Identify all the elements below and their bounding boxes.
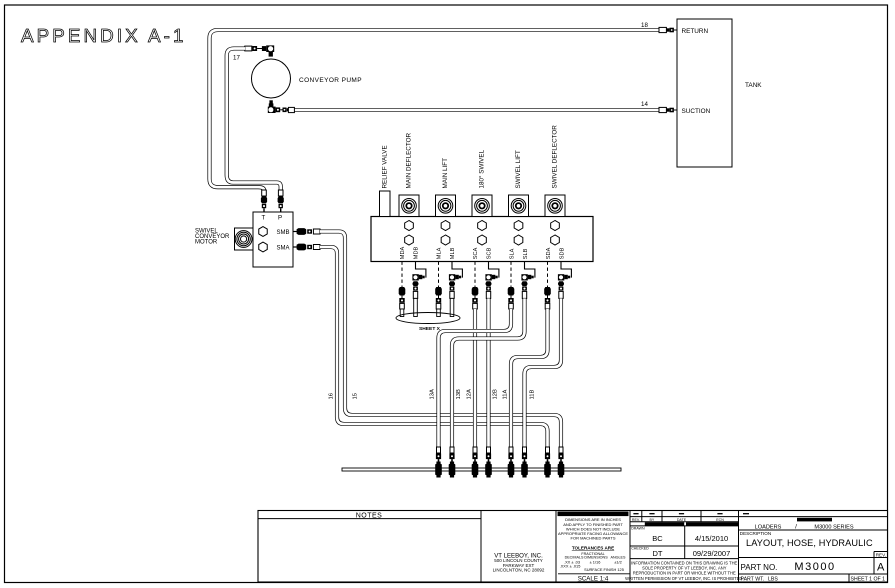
fitting at port SCB xyxy=(489,262,499,278)
hose 11A (SDA jog to bulkhead) xyxy=(511,309,548,448)
svg-text:SURFACE FINISH 125: SURFACE FINISH 125 xyxy=(584,567,624,572)
svg-text:SMB: SMB xyxy=(277,230,290,236)
svg-text:18: 18 xyxy=(641,22,648,29)
hose 16 (SMA to bulkhead) xyxy=(320,247,548,448)
bulkhead fitting for hose 13B xyxy=(450,447,454,453)
svg-text:SMA: SMA xyxy=(277,246,290,252)
svg-text:MLB: MLB xyxy=(450,247,456,259)
svg-text:180° SWIVEL: 180° SWIVEL xyxy=(477,149,485,188)
fitting at tank return xyxy=(659,27,666,32)
svg-text:M3000 SERIES: M3000 SERIES xyxy=(814,524,853,530)
svg-text:MAIN LIFT: MAIN LIFT xyxy=(442,158,449,189)
svg-text:11A: 11A xyxy=(503,389,509,399)
valve section V5 swivel deflector xyxy=(545,195,565,217)
valve section V2 main lift xyxy=(436,195,456,217)
hose 15 (SMB to bulkhead) xyxy=(320,232,561,448)
fitting at port MLB xyxy=(452,262,462,278)
hose 17 (pump to motor P) xyxy=(227,49,281,197)
svg-text:CHECKED: CHECKED xyxy=(631,547,649,551)
hose 14 (suction line, pump to tank) xyxy=(294,108,660,112)
svg-text:M3000: M3000 xyxy=(794,561,835,573)
svg-text:SWIVEL DEFLECTOR: SWIVEL DEFLECTOR xyxy=(551,125,558,189)
valve bank body xyxy=(371,217,593,262)
svg-text:LBS: LBS xyxy=(768,576,778,582)
svg-text:RETURN: RETURN xyxy=(682,28,709,35)
valve section V4 swivel lift xyxy=(509,195,529,217)
svg-text:MDB: MDB xyxy=(414,247,420,260)
fitting at port SLA xyxy=(510,262,512,288)
fitting at tank suction xyxy=(659,107,666,112)
svg-text:17: 17 xyxy=(233,55,240,62)
svg-text:RELIEF VALVE: RELIEF VALVE xyxy=(381,145,388,188)
hose 13B (SLB jog to bulkhead) xyxy=(452,298,525,447)
svg-text:SDA: SDA xyxy=(546,247,552,259)
svg-text:11B: 11B xyxy=(530,389,536,399)
svg-text:TANK: TANK xyxy=(745,82,762,89)
svg-text:PART NO.: PART NO. xyxy=(741,563,778,572)
svg-text:UNLESS OTHERWISE SPECIFIED: UNLESS OTHERWISE SPECIFIED xyxy=(561,511,625,516)
svg-text:MOTOR: MOTOR xyxy=(195,240,218,246)
relief valve xyxy=(380,191,391,217)
svg-text:SCB: SCB xyxy=(487,247,493,259)
bulkhead fitting for hose 11A xyxy=(509,447,513,453)
svg-text:MAIN DEFLECTOR: MAIN DEFLECTOR xyxy=(405,133,412,189)
svg-text:P: P xyxy=(278,215,282,222)
svg-text:13A: 13A xyxy=(430,389,436,399)
svg-text:CONVEYOR PUMP: CONVEYOR PUMP xyxy=(299,77,362,84)
svg-text:SWIVEL LIFT: SWIVEL LIFT xyxy=(515,150,522,188)
bulkhead plate xyxy=(342,468,621,471)
svg-text:FOR MACHINED PARTS: FOR MACHINED PARTS xyxy=(571,535,616,540)
svg-text:LOADERS: LOADERS xyxy=(755,524,782,530)
svg-text:SCA: SCA xyxy=(473,247,479,259)
fitting at motor port SMB xyxy=(293,231,297,233)
svg-text:SLB: SLB xyxy=(523,248,529,259)
svg-text:LAYOUT, HOSE, HYDRAULIC: LAYOUT, HOSE, HYDRAULIC xyxy=(746,538,873,548)
svg-text:15: 15 xyxy=(353,393,359,399)
svg-text:SHEET 1 OF 1: SHEET 1 OF 1 xyxy=(851,576,886,582)
hose 18 (return line, motor T to tank) xyxy=(210,30,660,196)
svg-text:REV.: REV. xyxy=(876,553,886,558)
svg-text:NOTES: NOTES xyxy=(356,512,383,519)
svg-text:09/29/2007: 09/29/2007 xyxy=(693,549,731,558)
svg-text:/: / xyxy=(795,524,797,531)
svg-text:4/15/2010: 4/15/2010 xyxy=(695,534,728,543)
svg-text:ECN DESCRIPTION: ECN DESCRIPTION xyxy=(798,518,831,522)
notes box xyxy=(258,511,888,583)
svg-text:± 1/16: ± 1/16 xyxy=(590,559,601,564)
fitting at motor port SMA xyxy=(293,246,297,248)
svg-text:BC: BC xyxy=(652,534,663,543)
hose 12B (SCB down to bulkhead) xyxy=(486,298,490,447)
svg-text:12B: 12B xyxy=(493,389,499,399)
svg-text:APPENDIX A-1: APPENDIX A-1 xyxy=(21,25,187,46)
svg-text:T: T xyxy=(262,215,266,222)
svg-text:SLA: SLA xyxy=(510,248,516,259)
pump suction elbow fitting (bottom) xyxy=(269,100,272,103)
svg-text:MLA: MLA xyxy=(437,247,443,259)
tolerance notes xyxy=(558,512,629,517)
svg-text:SDB: SDB xyxy=(560,247,566,259)
fitting at port SDA xyxy=(547,262,549,288)
hose 13A (SLA jog to bulkhead) xyxy=(439,309,512,448)
fitting at port SCA xyxy=(474,262,476,288)
fitting at port SDB xyxy=(561,262,571,278)
svg-text:REV.: REV. xyxy=(632,518,640,522)
svg-text:±1/2: ±1/2 xyxy=(614,559,622,564)
svg-text:SUCTION: SUCTION xyxy=(682,108,711,115)
conveyor pump P1 xyxy=(252,59,291,98)
bulkhead fitting for hose 12A xyxy=(473,447,477,453)
svg-text:PART WT.: PART WT. xyxy=(741,576,765,582)
svg-text:DESCRIPTION: DESCRIPTION xyxy=(740,531,771,536)
svg-text:SHEET X: SHEET X xyxy=(419,326,441,332)
svg-text:DATE: DATE xyxy=(677,518,687,522)
swivel conveyor motor M1 xyxy=(253,212,293,267)
tank xyxy=(677,19,732,167)
off-sheet connector balloon SHEET X xyxy=(396,313,460,324)
part info block xyxy=(739,516,888,518)
bulkhead fitting for hose 11B xyxy=(523,447,527,453)
pump outlet elbow fitting (top) xyxy=(245,46,252,51)
valve section V1 main deflector xyxy=(399,195,419,217)
svg-text:APPROVED BY: APPROVED BY xyxy=(652,522,677,526)
valve section V3 180 swivel xyxy=(472,195,492,217)
svg-text:LINCOLNTON, NC 28092: LINCOLNTON, NC 28092 xyxy=(493,567,545,572)
svg-text:TOLERANCES ARE: TOLERANCES ARE xyxy=(572,546,614,551)
hose 11B (SDB jog to bulkhead) xyxy=(525,298,562,447)
svg-text:WRITTEN PERMISSION OF VT LEEBO: WRITTEN PERMISSION OF VT LEEBOY, INC. IS… xyxy=(625,576,743,581)
svg-text:SEAL: SEAL xyxy=(708,522,717,526)
svg-text:A: A xyxy=(877,562,885,574)
svg-text:MDA: MDA xyxy=(400,247,406,260)
svg-text:.XXX ± .015: .XXX ± .015 xyxy=(560,564,581,569)
bulkhead fitting for hose 15 xyxy=(559,447,563,453)
svg-text:SCALE 1:4: SCALE 1:4 xyxy=(578,575,609,582)
revision table xyxy=(630,516,739,518)
fitting at port MDB xyxy=(416,262,426,278)
fitting at port MDA xyxy=(401,262,403,288)
fitting at port MLA xyxy=(438,262,440,288)
svg-text:12A: 12A xyxy=(467,389,473,399)
fitting at motor port P xyxy=(278,190,283,196)
svg-text:BY: BY xyxy=(650,518,655,522)
svg-text:ECN: ECN xyxy=(716,518,724,522)
svg-text:16: 16 xyxy=(329,393,335,399)
svg-text:DRAWN: DRAWN xyxy=(631,527,645,531)
svg-text:DT: DT xyxy=(653,549,663,558)
fitting at motor port T xyxy=(262,190,267,196)
svg-text:13B: 13B xyxy=(456,389,462,399)
bulkhead fitting for hose 12B xyxy=(487,447,491,453)
bulkhead fitting for hose 16 xyxy=(546,447,550,453)
fitting at port SLB xyxy=(525,262,535,278)
svg-text:14: 14 xyxy=(641,101,648,108)
bulkhead fitting for hose 13A xyxy=(437,447,441,453)
hose 12A (SCA down to bulkhead) xyxy=(473,309,477,448)
